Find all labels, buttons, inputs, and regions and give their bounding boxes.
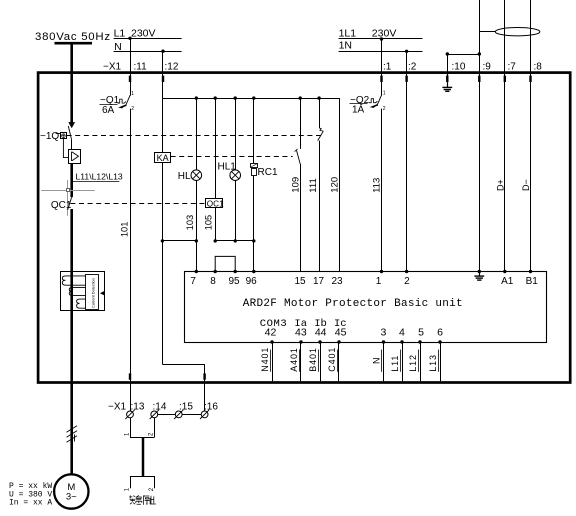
svg-text::7: :7 bbox=[508, 61, 517, 72]
svg-text:−X1: −X1 bbox=[103, 61, 122, 72]
svg-text:7: 7 bbox=[190, 276, 196, 287]
svg-text::13: :13 bbox=[131, 401, 145, 412]
svg-text:−1Q: −1Q bbox=[40, 131, 59, 142]
svg-text::15: :15 bbox=[179, 401, 193, 412]
svg-text:6: 6 bbox=[437, 326, 443, 338]
svg-text:45: 45 bbox=[335, 326, 347, 338]
svg-text:95: 95 bbox=[228, 276, 240, 287]
svg-text:A401: A401 bbox=[289, 347, 299, 372]
svg-text:L13: L13 bbox=[428, 354, 438, 372]
svg-text:1N: 1N bbox=[339, 40, 352, 52]
svg-text:2: 2 bbox=[131, 106, 134, 112]
svg-text:ARD2F Motor Protector Basic un: ARD2F Motor Protector Basic unit bbox=[243, 298, 463, 310]
svg-text:230V: 230V bbox=[131, 28, 156, 40]
svg-text:L11: L11 bbox=[390, 355, 400, 372]
svg-text:111: 111 bbox=[308, 178, 319, 192]
svg-text:103: 103 bbox=[185, 215, 195, 231]
svg-text:43: 43 bbox=[295, 326, 307, 338]
svg-text:RC1: RC1 bbox=[258, 167, 278, 178]
svg-text::1: :1 bbox=[383, 61, 392, 72]
svg-text:17: 17 bbox=[313, 276, 325, 287]
svg-text:L12: L12 bbox=[408, 354, 418, 372]
svg-text:3: 3 bbox=[380, 326, 386, 338]
svg-text:6A: 6A bbox=[102, 105, 115, 116]
svg-text:N401: N401 bbox=[260, 347, 270, 372]
svg-text:4: 4 bbox=[399, 326, 405, 338]
svg-text:5: 5 bbox=[418, 326, 424, 338]
svg-text:109: 109 bbox=[291, 177, 302, 193]
svg-text::12: :12 bbox=[165, 61, 179, 72]
svg-text::16: :16 bbox=[204, 401, 218, 412]
svg-text::10: :10 bbox=[452, 61, 466, 72]
svg-text:D−: D− bbox=[521, 179, 531, 191]
svg-text:−X1: −X1 bbox=[108, 401, 127, 412]
svg-text:C401: C401 bbox=[327, 347, 337, 372]
svg-text:15: 15 bbox=[294, 276, 306, 287]
svg-text:2: 2 bbox=[383, 106, 386, 112]
svg-text:105: 105 bbox=[203, 215, 213, 231]
svg-text:B401: B401 bbox=[308, 347, 318, 372]
svg-text:HL1: HL1 bbox=[218, 162, 237, 173]
svg-text:In = xx A: In = xx A bbox=[9, 499, 52, 508]
svg-text:Current Detection: Current Detection bbox=[92, 278, 96, 308]
svg-text:A1: A1 bbox=[501, 276, 514, 287]
svg-text::9: :9 bbox=[483, 61, 492, 72]
svg-text:44: 44 bbox=[315, 326, 327, 338]
svg-text:1L1: 1L1 bbox=[339, 27, 357, 39]
svg-text:42: 42 bbox=[265, 326, 277, 338]
svg-text:L11\L12\L13: L11\L12\L13 bbox=[76, 171, 123, 181]
svg-text:2: 2 bbox=[404, 276, 410, 287]
svg-text:8: 8 bbox=[210, 276, 216, 287]
svg-text:1A: 1A bbox=[352, 104, 365, 115]
svg-text:113: 113 bbox=[372, 178, 383, 193]
svg-text:KA: KA bbox=[157, 153, 169, 163]
svg-text:1: 1 bbox=[131, 91, 134, 97]
svg-text:120: 120 bbox=[329, 177, 340, 193]
svg-text:3~: 3~ bbox=[66, 492, 77, 503]
svg-text::11: :11 bbox=[134, 61, 148, 72]
svg-text:HL: HL bbox=[178, 171, 191, 182]
svg-text:230V: 230V bbox=[372, 27, 397, 39]
svg-text:B1: B1 bbox=[526, 276, 539, 287]
svg-text:N: N bbox=[372, 357, 382, 364]
svg-text:23: 23 bbox=[331, 276, 343, 287]
svg-text:101: 101 bbox=[119, 222, 129, 238]
svg-text:L1: L1 bbox=[114, 28, 126, 40]
svg-text::2: :2 bbox=[408, 61, 417, 72]
svg-text:96: 96 bbox=[246, 276, 258, 287]
svg-text:D+: D+ bbox=[495, 179, 505, 191]
svg-text:QC1: QC1 bbox=[207, 199, 224, 208]
svg-text:1: 1 bbox=[383, 90, 386, 96]
svg-text:380Vac 50Hz: 380Vac 50Hz bbox=[35, 31, 111, 43]
svg-text:1: 1 bbox=[376, 276, 382, 287]
svg-text::8: :8 bbox=[534, 61, 543, 72]
